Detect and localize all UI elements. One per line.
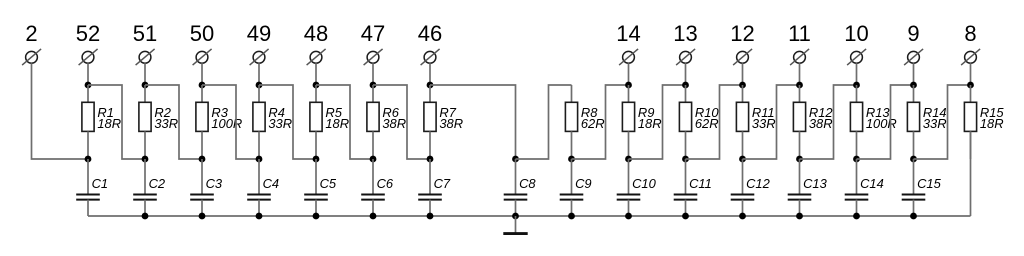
junction bottom node C12 [739, 156, 746, 163]
junction bus at C14 [853, 213, 860, 220]
resistor R10 [679, 85, 691, 159]
resistor R5 [310, 85, 322, 159]
junction bottom node C15 [910, 156, 917, 163]
capacitor C1 [76, 159, 100, 216]
svg-text:C15: C15 [917, 176, 941, 191]
junction bus at C12 [739, 213, 746, 220]
svg-text:18R: 18R [980, 116, 1004, 131]
wire node C9 to terminal 14 node [572, 85, 629, 159]
capacitor C13 [788, 159, 812, 216]
wire terminal 10 to top node [856, 63, 858, 85]
svg-text:100R: 100R [211, 116, 242, 131]
svg-text:38R: 38R [439, 116, 463, 131]
junction top node 13 [682, 82, 689, 89]
svg-text:8: 8 [964, 21, 976, 46]
junction bottom node C11 [682, 156, 689, 163]
svg-text:100R: 100R [866, 116, 897, 131]
resistor R7 [424, 85, 436, 159]
wire R15 bottom to ground bus [970, 131, 972, 216]
svg-text:13: 13 [673, 21, 697, 46]
junction top node 10 [853, 82, 860, 89]
capacitor C12 [731, 159, 755, 216]
resistor R13 [850, 85, 862, 159]
terminal pin 2 [22, 49, 41, 65]
svg-text:62R: 62R [581, 116, 605, 131]
junction bus at C6 [370, 213, 377, 220]
capacitor C3 [190, 159, 214, 216]
svg-text:10: 10 [844, 21, 868, 46]
resistor R15 [964, 85, 976, 159]
terminal pin 50 [193, 49, 212, 65]
junction top node 9 [910, 82, 917, 89]
resistor R2 [139, 85, 151, 159]
svg-text:9: 9 [907, 21, 919, 46]
junction top node 47 [370, 82, 377, 89]
svg-text:2: 2 [25, 21, 37, 46]
wire terminal 12 to top node [742, 63, 744, 85]
wire terminal 50 to top node [201, 63, 203, 85]
terminal pin 48 [307, 49, 326, 65]
svg-text:33R: 33R [752, 116, 776, 131]
terminal pin 14 [619, 49, 638, 65]
junction bus at C4 [256, 213, 263, 220]
terminal pin 52 [79, 49, 98, 65]
svg-text:C5: C5 [320, 176, 337, 191]
wire node 46 to node C8 [430, 85, 516, 159]
junction bottom node C1 [85, 156, 92, 163]
terminal pin 12 [733, 49, 752, 65]
wire node C8 to R8 top [516, 85, 572, 159]
resistor R14 [907, 85, 919, 159]
wire terminal 2 down to node N1 [32, 63, 89, 159]
junction bottom node C14 [853, 156, 860, 163]
junction top node 50 [199, 82, 206, 89]
wire terminal 11 to top node [799, 63, 801, 85]
wire terminal 9 to top node [913, 63, 915, 85]
terminal pin 51 [136, 49, 155, 65]
svg-text:C6: C6 [377, 176, 394, 191]
junction node C9 [568, 156, 575, 163]
wire terminal 8 to top node [970, 63, 972, 85]
resistor R4 [253, 85, 265, 159]
wire node C14 to terminal 9 node [857, 85, 914, 159]
wire node C12 to terminal 11 node [743, 85, 800, 159]
junction bus at C9 [568, 213, 575, 220]
wire node 50 to node C4 [202, 85, 259, 159]
wire terminal 13 to top node [685, 63, 687, 85]
resistor R12 [793, 85, 805, 159]
junction bottom node C10 [625, 156, 632, 163]
junction bus at C5 [313, 213, 320, 220]
junction top node 52 [85, 82, 92, 89]
svg-text:C14: C14 [860, 176, 884, 191]
capacitor C8 [504, 159, 528, 216]
terminal pin 46 [421, 49, 440, 65]
svg-text:62R: 62R [695, 116, 719, 131]
svg-text:18R: 18R [325, 116, 349, 131]
junction bus at C11 [682, 213, 689, 220]
junction top node 11 [796, 82, 803, 89]
wire terminal 51 to top node [144, 63, 146, 85]
wire node 47 to node C7 [373, 85, 430, 159]
ground bus wire [88, 215, 971, 217]
svg-text:C10: C10 [632, 176, 656, 191]
capacitor C10 [617, 159, 641, 216]
junction bus at C3 [199, 213, 206, 220]
svg-text:C12: C12 [746, 176, 770, 191]
capacitor C7 [418, 159, 442, 216]
svg-text:11: 11 [788, 21, 811, 46]
svg-text:12: 12 [730, 21, 754, 46]
wire node C10 to terminal 13 node [629, 85, 686, 159]
junction bus at C10 [625, 213, 632, 220]
wire terminal 48 to top node [315, 63, 317, 85]
resistor R9 [622, 85, 634, 159]
capacitor C6 [361, 159, 385, 216]
svg-text:C9: C9 [575, 176, 591, 191]
junction bus at C2 [142, 213, 149, 220]
junction bottom node C4 [256, 156, 263, 163]
svg-text:38R: 38R [809, 116, 833, 131]
svg-text:49: 49 [247, 21, 271, 46]
capacitor C4 [247, 159, 271, 216]
junction bottom node C5 [313, 156, 320, 163]
junction bus at C8 / ground [512, 213, 519, 220]
junction bottom node C3 [199, 156, 206, 163]
wire terminal 46 to top node [429, 63, 431, 85]
wire terminal 47 to top node [372, 63, 374, 85]
junction node C8 [512, 156, 519, 163]
junction top node 14 [625, 82, 632, 89]
junction bottom node C13 [796, 156, 803, 163]
terminal pin 8 [961, 49, 980, 65]
junction bottom node C7 [427, 156, 434, 163]
wire node C11 to terminal 12 node [686, 85, 743, 159]
junction bottom node C2 [142, 156, 149, 163]
svg-text:14: 14 [616, 21, 640, 46]
wire terminal 49 to top node [258, 63, 260, 85]
terminal pin 13 [676, 49, 695, 65]
svg-text:38R: 38R [382, 116, 406, 131]
svg-text:33R: 33R [268, 116, 292, 131]
svg-text:48: 48 [304, 21, 328, 46]
wire node 48 to node C6 [316, 85, 373, 159]
junction top node 49 [256, 82, 263, 89]
junction bus at C15 [910, 213, 917, 220]
svg-text:52: 52 [76, 21, 100, 46]
terminal pin 47 [364, 49, 383, 65]
capacitor C15 [902, 159, 926, 216]
wire terminal 52 to top node [87, 63, 89, 85]
junction top node 51 [142, 82, 149, 89]
svg-text:50: 50 [190, 21, 214, 46]
junction bus at C13 [796, 213, 803, 220]
junction bus at C7 [427, 213, 434, 220]
svg-text:51: 51 [133, 21, 157, 46]
terminal pin 49 [250, 49, 269, 65]
capacitor C2 [133, 159, 157, 216]
capacitor C5 [304, 159, 328, 216]
ground [503, 216, 527, 234]
svg-text:33R: 33R [923, 116, 947, 131]
svg-text:C3: C3 [206, 176, 223, 191]
svg-text:C11: C11 [689, 176, 712, 191]
svg-text:46: 46 [418, 21, 442, 46]
resistor R1 [82, 85, 94, 159]
junction top node 8 [967, 82, 974, 89]
terminal pin 10 [847, 49, 866, 65]
capacitor C9 [560, 159, 584, 216]
junction top node 46 [427, 82, 434, 89]
svg-text:18R: 18R [638, 116, 662, 131]
svg-text:C7: C7 [434, 176, 451, 191]
wire node 52 to node C2 [88, 85, 145, 159]
svg-text:C2: C2 [149, 176, 165, 191]
capacitor C11 [674, 159, 698, 216]
svg-text:C4: C4 [263, 176, 279, 191]
svg-text:33R: 33R [154, 116, 178, 131]
svg-text:C1: C1 [92, 176, 108, 191]
wire node C13 to terminal 10 node [800, 85, 857, 159]
wire node 49 to node C5 [259, 85, 316, 159]
junction top node 48 [313, 82, 320, 89]
resistor R11 [736, 85, 748, 159]
svg-text:47: 47 [361, 21, 385, 46]
junction top node 12 [739, 82, 746, 89]
resistor R6 [367, 85, 379, 159]
wire node C15 to terminal 8 node [914, 85, 971, 159]
wire terminal 14 to top node [628, 63, 630, 85]
terminal pin 9 [904, 49, 923, 65]
wire node 51 to node C3 [145, 85, 202, 159]
svg-text:C8: C8 [519, 176, 536, 191]
svg-text:18R: 18R [97, 116, 121, 131]
resistor R8 [565, 85, 577, 159]
terminal pin 11 [790, 49, 809, 65]
junction bottom node C6 [370, 156, 377, 163]
capacitor C14 [845, 159, 869, 216]
svg-text:C13: C13 [803, 176, 827, 191]
resistor R3 [196, 85, 208, 159]
